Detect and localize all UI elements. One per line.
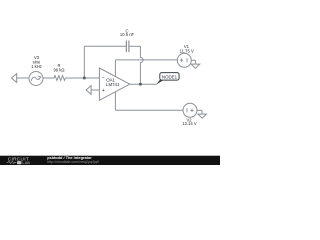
svg-text:http://circuitlab.com/cmq2pq4j: http://circuitlab.com/cmq2pq4jq9 <box>47 160 99 164</box>
voltage source V2 circle <box>183 103 197 117</box>
wire capacitor to corner <box>129 45 141 47</box>
wire V- rail to V2 <box>115 109 183 111</box>
ground GND2 (op-amp + input) <box>86 86 91 95</box>
junction at output/feedback node <box>139 83 142 86</box>
wire V1 to ground <box>191 59 195 61</box>
V1 plus sign <box>180 59 183 62</box>
ground GND3 (left of V3) <box>12 74 17 83</box>
svg-text:+: + <box>102 88 105 94</box>
wire V+ rail to V1 <box>115 59 177 61</box>
junction at feedback/input node <box>83 77 86 80</box>
node flag NODE1 box <box>160 73 179 81</box>
wire V2 to ground <box>197 109 202 111</box>
op-amp OA1 triangle <box>99 68 129 100</box>
wire GND3 to V3 <box>17 77 29 79</box>
svg-text:NODE1: NODE1 <box>162 74 178 79</box>
svg-text:12.14 V: 12.14 V <box>182 121 197 126</box>
svg-text:1 kHz: 1 kHz <box>31 64 42 69</box>
V2 plus sign <box>190 109 193 112</box>
footer logo LAB tag <box>17 161 21 164</box>
op-amp V- pin <box>114 92 116 110</box>
svg-text:LM741: LM741 <box>106 82 120 87</box>
svg-text:−: − <box>102 76 105 82</box>
footer bar <box>0 156 220 165</box>
wire GND2 to + input <box>91 89 99 91</box>
wire R to op-amp inverting input <box>65 77 99 79</box>
svg-text:10.5 nF: 10.5 nF <box>120 32 135 37</box>
V1 minus bar <box>186 58 188 62</box>
ground GND4 (V2) <box>198 110 207 118</box>
V2 minus bar <box>186 108 188 112</box>
voltage source V3 circle <box>29 72 43 86</box>
wire V3 to R <box>43 77 54 79</box>
op-amp V+ pin <box>114 60 116 77</box>
svg-text:99 kΩ: 99 kΩ <box>53 67 64 72</box>
wire feedback vertical up from junction <box>83 46 85 78</box>
svg-text:11.75 V: 11.75 V <box>180 49 194 54</box>
wire op-amp output <box>130 83 157 85</box>
wire vertical down with hop over V+ rail <box>140 46 143 84</box>
capacitor C plates <box>125 41 127 53</box>
ground GND1 (V1) <box>191 60 200 68</box>
wire feedback top horizontal to capacitor <box>84 45 126 47</box>
voltage source V1 circle <box>177 53 191 67</box>
V3 sine-arrow glyph <box>31 77 40 81</box>
node flag NODE1 tail <box>156 79 162 84</box>
resistor R zigzag <box>54 76 65 81</box>
footer logo zigzag <box>7 161 17 163</box>
svg-text:LAB: LAB <box>22 161 30 165</box>
